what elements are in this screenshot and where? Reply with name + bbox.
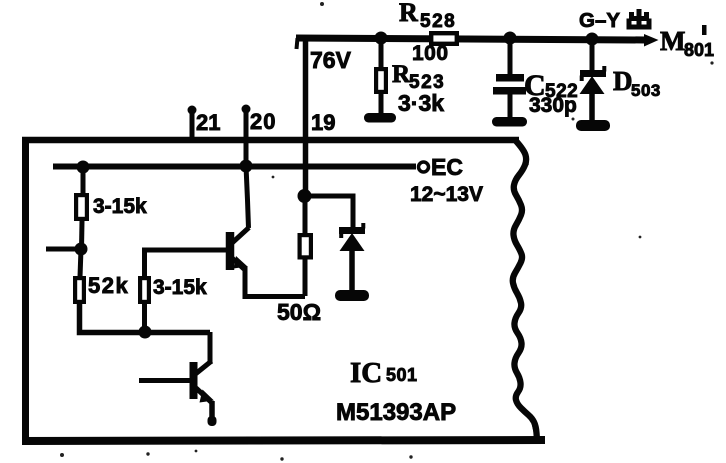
svg-text:3·3k: 3·3k [398, 90, 444, 116]
IC box outline: left edge [22, 137, 29, 441]
svg-text:D: D [613, 66, 633, 96]
IC box outline: top edge [22, 137, 519, 144]
resistor 50ohm [300, 235, 311, 257]
node: junction dot rail/R523 [375, 32, 388, 45]
svg-text:52k: 52k [88, 273, 129, 298]
ground (D503) [576, 120, 610, 131]
wire: Q2 collector up to bottom bus [208, 332, 213, 364]
label R523 [392, 61, 445, 93]
svg-text:3-15k: 3-15k [93, 195, 147, 218]
wire: Q1 emitter down and right to 50ohm bottom [245, 266, 305, 297]
ground (R523) [364, 113, 396, 123]
label 3-15k (upper) [93, 195, 147, 218]
svg-text:503: 503 [631, 81, 661, 100]
label C522 [524, 69, 578, 102]
transistor Q2 [194, 361, 215, 403]
diode D503 (zener) [580, 66, 607, 94]
resistor 3.15k (upper left) [76, 195, 87, 219]
wire: 3.15k lower top to Q1 base [145, 250, 228, 277]
svg-text:76V: 76V [310, 47, 352, 73]
label 100 (value of R528) [412, 42, 449, 65]
wire: junction to 50ohm resistor [303, 196, 308, 234]
wire: left input stub [46, 247, 81, 252]
svg-text:12~13V: 12~13V [410, 183, 483, 206]
label 12~13V [410, 183, 483, 206]
wire: rail to D503 [590, 39, 595, 72]
label pin 20 [250, 109, 276, 134]
svg-text:50Ω: 50Ω [277, 299, 321, 325]
svg-text:528: 528 [420, 11, 456, 32]
label 3.3k (value of R523) [398, 90, 444, 116]
label 76V [310, 47, 352, 73]
IC box outline: bottom edge [22, 440, 545, 441]
svg-text:330p: 330p [529, 94, 577, 117]
resistor 52k [75, 278, 84, 302]
wire: internal EC rail [53, 164, 416, 170]
svg-text:R: R [399, 0, 418, 27]
label 330p (value of C522) [529, 94, 577, 117]
label R528 [399, 0, 456, 32]
svg-text:G–Y: G–Y [579, 9, 620, 32]
resistor R523 [376, 69, 386, 92]
wire: 3.15k lower bottom to bus [142, 304, 147, 332]
diode (internal, zener to ground) [339, 223, 365, 251]
wire: internal diode to ground [349, 249, 355, 292]
svg-text:20: 20 [250, 109, 276, 134]
svg-text:M: M [660, 26, 685, 56]
wire: 52k down and right along bottom bus [80, 304, 211, 333]
label 3-15k (lower) [153, 276, 207, 299]
node: junction dot bottom bus / 3.15k lower [139, 326, 152, 339]
ground (internal diode) [335, 290, 369, 301]
label M801 [660, 25, 714, 60]
svg-text:100: 100 [412, 42, 449, 65]
wire: 76V supply top rail [296, 38, 646, 40]
wire: pin 19 vertical from rail into IC [303, 36, 309, 196]
resistor 3.15k (lower) [140, 278, 149, 302]
label pin 21 [196, 110, 220, 135]
label 50ohm [277, 299, 321, 325]
wire: rail to resistor 3.15k (first) [81, 167, 86, 194]
wire: rail to C522 [508, 38, 513, 76]
pin 21 stub [190, 111, 195, 142]
node: junction dot rail/Q1 collector [240, 160, 253, 173]
node: junction dot stub [75, 243, 88, 256]
wire: R523 to ground [379, 94, 384, 115]
svg-text:501: 501 [386, 365, 418, 385]
wire: D503 to ground [589, 92, 595, 123]
svg-text:801: 801 [684, 40, 714, 60]
svg-text:EC: EC [431, 154, 463, 180]
node: junction dot rail/C522 [504, 32, 517, 45]
label IC501 [350, 357, 418, 389]
svg-text:19: 19 [311, 110, 335, 135]
label D503 [613, 66, 661, 100]
capacitor C522 [493, 74, 526, 95]
label 52k [88, 273, 129, 298]
wire: pin 20 through rail to Q1 collector [246, 108, 249, 228]
node: junction dot pin19/50ohm/diode [298, 189, 312, 203]
svg-text:M51393AP: M51393AP [336, 399, 456, 426]
node: arrow into M801 [644, 34, 659, 47]
transistor Q1 [230, 228, 249, 271]
wire: 50ohm bottom to emitter bus [303, 259, 308, 296]
wire: Q2 emitter tail [209, 401, 215, 421]
svg-text:3-15k: 3-15k [153, 276, 207, 299]
resistor R528 [431, 33, 457, 44]
label G-Y out [579, 9, 620, 32]
node: junction dot rail/3.15k [77, 161, 90, 174]
wire: C522 to ground [508, 94, 513, 119]
IC box outline: right edge (torn/wavy) [513, 141, 537, 440]
wire: rail to R523 [379, 38, 384, 68]
svg-text:IC: IC [350, 357, 382, 389]
node: junction dot rail/D503 [586, 33, 599, 46]
node: EC terminal circle [419, 162, 429, 172]
label 出 (out), hand-drawn glyph [629, 9, 649, 27]
wire: Q2 base stub [139, 378, 190, 383]
label EC [431, 154, 463, 180]
wire: 3.15k down to stub node [79, 221, 85, 249]
label pin 19 [311, 110, 335, 135]
ground (C522) [492, 117, 527, 127]
label M51393AP [336, 399, 456, 426]
wire: stub node down to 52k [80, 249, 81, 277]
wire: junction right to internal diode [303, 196, 353, 229]
svg-text:21: 21 [196, 110, 220, 135]
